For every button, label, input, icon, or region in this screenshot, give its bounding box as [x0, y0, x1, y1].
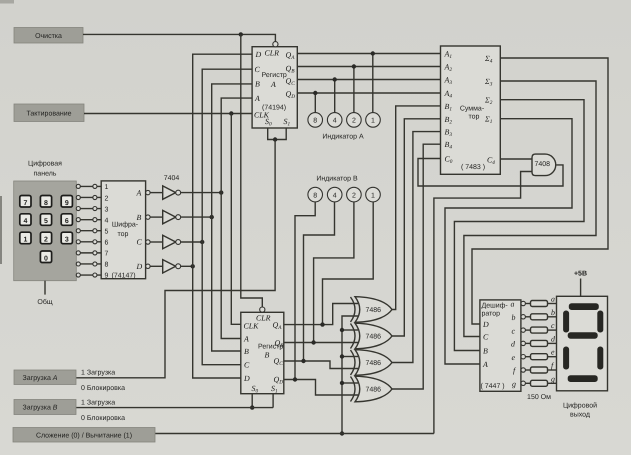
- indicator B lamp 1: [366, 187, 381, 202]
- indicator A: [308, 113, 380, 128]
- wire Σ1 to decoder A: [445, 119, 572, 364]
- svg-text:Загрузка В: Загрузка В: [23, 405, 58, 412]
- svg-text:9: 9: [105, 273, 109, 280]
- svg-text:a: a: [511, 300, 515, 309]
- wire XOR4 out to adder B4: [392, 144, 441, 389]
- wire XOR2 out to adder B2: [392, 119, 441, 336]
- wire subtract to 7408 input2: [434, 172, 532, 434]
- svg-text:7486: 7486: [366, 334, 382, 341]
- key 1: [20, 232, 31, 244]
- encoder output D bubble: [146, 264, 150, 268]
- wire decoder c to resistor: [525, 329, 530, 331]
- svg-text:4: 4: [333, 192, 337, 199]
- svg-text:7: 7: [105, 251, 109, 258]
- terminal encoder side row 5: [93, 229, 97, 233]
- wire Σ2 to decoder B: [454, 100, 584, 351]
- display segment f upper-left: [563, 311, 569, 333]
- display segment a top: [569, 303, 599, 310]
- wire Очистка to CLR of register A with branch node: [83, 34, 275, 41]
- svg-text:7486: 7486: [366, 387, 382, 394]
- wire XOR3 out to adder B3: [392, 132, 441, 363]
- encoder output B bubble: [146, 215, 150, 219]
- terminal keypad side row 1: [76, 184, 80, 188]
- svg-text:Загрузка А: Загрузка А: [23, 375, 58, 382]
- wire inverter B output to B bus: [181, 216, 212, 218]
- wire decoder f to resistor: [525, 369, 530, 371]
- node CLK branch: [229, 111, 233, 115]
- wire resistor to display segment c: [548, 329, 557, 331]
- decoder output b bubble: [521, 315, 525, 319]
- svg-text:6: 6: [65, 218, 69, 225]
- svg-text:Цифровая: Цифровая: [28, 160, 62, 168]
- resistor 150 Ohm segment b: [531, 314, 548, 320]
- svg-text:В: В: [265, 351, 270, 360]
- svg-text:0: 0: [44, 255, 48, 262]
- terminal encoder side row 7: [93, 251, 97, 255]
- wire regB S1: [272, 394, 274, 408]
- terminal encoder side row 3: [93, 207, 97, 211]
- svg-text:A: A: [243, 335, 249, 344]
- terminal encoder side row 1: [93, 184, 97, 188]
- svg-text:e: e: [512, 353, 516, 362]
- wire encoder B to inverter B: [150, 216, 163, 218]
- indicator B wires: [295, 202, 315, 380]
- wire QA regB to XOR1: [284, 304, 358, 325]
- and-gate 7408: [532, 154, 556, 176]
- svg-text:8: 8: [313, 192, 317, 199]
- wire QB regB to XOR2: [284, 342, 359, 344]
- wire keypad key row 2 to encoder pin 2: [78, 196, 101, 198]
- svg-text:4: 4: [23, 218, 27, 225]
- svg-text:C: C: [137, 238, 143, 247]
- wire decoder g to resistor: [525, 382, 530, 384]
- wire C4 to 7408 input1: [500, 158, 532, 160]
- terminal keypad side row 7: [76, 251, 80, 255]
- wire QD regA to adder A4: [297, 92, 440, 94]
- svg-text:1: 1: [23, 237, 27, 244]
- svg-text:e: e: [551, 348, 555, 357]
- node CLR branch: [239, 32, 243, 36]
- wire QC regA to adder A3: [297, 79, 440, 81]
- wire keypad key row 3 to encoder pin 3: [78, 208, 101, 210]
- svg-text:3: 3: [65, 237, 69, 244]
- svg-text:Регистр: Регистр: [262, 72, 287, 79]
- scan edge streak: [0, 196, 2, 264]
- svg-text:выход: выход: [570, 412, 590, 419]
- xor-gate U4b 7486: [355, 323, 392, 349]
- svg-text:Сумма-: Сумма-: [460, 106, 485, 113]
- svg-text:8: 8: [105, 262, 109, 269]
- inverter U2b 7404 B: [163, 210, 176, 223]
- wire keypad key row 7 to encoder pin 7: [78, 252, 101, 254]
- svg-text:8: 8: [44, 200, 48, 207]
- wire C bus: [202, 69, 252, 365]
- svg-text:( 7447 ): ( 7447 ): [481, 382, 505, 390]
- resistor 150 Ohm segment e: [531, 354, 548, 360]
- key 6: [61, 214, 72, 226]
- wire keypad key row 1 to encoder pin 1: [78, 185, 101, 187]
- key 9: [61, 196, 72, 208]
- key 0: [40, 251, 51, 263]
- svg-text:1: 1: [371, 192, 375, 199]
- wire regB S0: [251, 394, 253, 408]
- decoder output e bubble: [521, 355, 525, 359]
- svg-text:B: B: [244, 347, 249, 356]
- resistor 150 Ohm segment c: [531, 327, 548, 333]
- svg-text:А: А: [270, 80, 276, 89]
- wire QC regB to XOR3: [284, 361, 358, 369]
- key 7: [20, 196, 31, 208]
- svg-text:B: B: [483, 347, 488, 356]
- svg-text:D: D: [243, 374, 250, 383]
- terminal encoder side row 6: [93, 240, 97, 244]
- svg-text:Сложение (0) / Вычитание (1): Сложение (0) / Вычитание (1): [36, 431, 132, 439]
- svg-text:c: c: [512, 326, 516, 335]
- svg-text:a: a: [551, 295, 555, 304]
- wire CLR bus down to register B: [241, 34, 262, 307]
- wire common stem: [44, 281, 46, 295]
- svg-text:150 Ом: 150 Ом: [527, 394, 551, 401]
- resistor 150 Ohm segment g: [531, 380, 548, 386]
- wire resistor to display segment g: [548, 382, 557, 384]
- terminal keypad side row 6: [76, 240, 80, 244]
- wire D bus: [193, 54, 252, 378]
- decoder output c bubble: [521, 328, 525, 332]
- wire encoder C to inverter C: [150, 241, 163, 243]
- encoder output bubbles + stubs: [146, 190, 150, 268]
- svg-text:( 7483 ): ( 7483 ): [461, 163, 485, 171]
- inverter U2c 7404 C: [163, 235, 176, 248]
- wire regA S0 S1 join: [268, 128, 287, 140]
- adder 7483: [441, 46, 501, 174]
- svg-text:C: C: [244, 361, 250, 370]
- svg-text:c: c: [551, 321, 555, 330]
- terminal encoder side row 4: [93, 218, 97, 222]
- wire resistor to display segment f: [548, 369, 557, 371]
- wire decoder d to resistor: [525, 342, 530, 344]
- svg-text:3: 3: [105, 206, 109, 213]
- node D bus junction: [191, 264, 195, 268]
- keypad panel label: [28, 160, 62, 178]
- xor-gate U4d 7486: [355, 376, 392, 402]
- node A bus junction: [219, 190, 223, 194]
- resistors and segment wires: [521, 295, 557, 387]
- wire resistor to display segment d: [548, 342, 557, 344]
- svg-text:2: 2: [44, 237, 48, 244]
- key 8: [40, 196, 51, 208]
- svg-text:A: A: [136, 188, 142, 197]
- svg-text:0 Блокировка: 0 Блокировка: [81, 415, 125, 422]
- resistor 150 Ohm segment d: [531, 340, 548, 346]
- inverters: [150, 186, 223, 273]
- inverter U2a 7404 A: [163, 186, 176, 199]
- decoder output f bubble: [521, 368, 525, 372]
- svg-text:d: d: [511, 340, 515, 349]
- xor-gate U4c 7486: [355, 350, 392, 376]
- terminal encoder side row 9: [93, 273, 97, 277]
- svg-text:Индикатор В: Индикатор В: [316, 176, 358, 183]
- wire decoder a to resistor: [525, 303, 530, 305]
- wire Σ4 to decoder D: [472, 58, 608, 324]
- svg-text:тор: тор: [469, 114, 480, 121]
- wire keypad key row 4 to encoder pin 4: [78, 219, 101, 221]
- wire QB regA to adder A2: [297, 66, 440, 68]
- svg-text:0 Блокировка: 0 Блокировка: [81, 385, 125, 392]
- svg-text:7: 7: [23, 200, 27, 207]
- 7-seg display: [557, 296, 608, 391]
- terminal encoder side row 2: [93, 195, 97, 199]
- svg-text:B: B: [255, 80, 260, 89]
- wire Σ3 to decoder C: [464, 81, 596, 337]
- svg-text:4: 4: [333, 118, 337, 125]
- wire Загрузка B: [76, 407, 273, 409]
- wires keypad to encoder rows 1-9 with terminals: [76, 184, 101, 277]
- svg-text:Тактирование: Тактирование: [26, 111, 71, 118]
- wire Сложение main: [155, 433, 434, 435]
- wire XOR1 out to adder B1: [392, 106, 441, 310]
- svg-text:D: D: [255, 50, 262, 59]
- svg-text:Цифровой: Цифровой: [563, 402, 597, 410]
- indicator A risers: [372, 54, 374, 114]
- wire keypad key row 5 to encoder pin 5: [78, 230, 101, 232]
- wire QD regB to XOR4: [284, 380, 358, 396]
- subtract riser to XOR gates: [342, 316, 358, 434]
- display segment g middle: [568, 332, 598, 338]
- svg-text:+5В: +5В: [574, 271, 587, 278]
- svg-text:4: 4: [105, 217, 109, 224]
- wire decoder b to resistor: [525, 316, 530, 318]
- svg-text:Шифра-: Шифра-: [112, 221, 139, 229]
- svg-text:панель: панель: [34, 171, 57, 178]
- svg-text:5: 5: [44, 218, 48, 225]
- wire B bus: [212, 84, 252, 351]
- resistor 150 Ohm segment f: [531, 367, 548, 373]
- wire keypad key row 6 to encoder pin 6: [78, 241, 101, 243]
- wire 7408 out end-around to C0: [418, 159, 563, 187]
- svg-text:b: b: [512, 313, 516, 322]
- wire CLK bus down to register B: [231, 114, 241, 325]
- decoder 7447: [480, 300, 521, 392]
- key 5: [40, 214, 51, 226]
- inverter U2d 7404 D: [163, 260, 176, 273]
- key 2: [40, 232, 51, 244]
- svg-text:Дешиф-: Дешиф-: [482, 302, 509, 310]
- svg-text:b: b: [551, 308, 555, 317]
- decoder output a bubble: [521, 301, 525, 305]
- wire resistor to display segment b: [548, 316, 557, 318]
- indicator B lamp 4: [327, 187, 342, 202]
- svg-text:Индикатор А: Индикатор А: [322, 134, 364, 141]
- resistor 150 Ohm segment a: [531, 301, 548, 307]
- svg-text:ратор: ратор: [482, 311, 501, 318]
- svg-text:1: 1: [371, 118, 375, 125]
- svg-text:A: A: [254, 94, 260, 103]
- wire A bus: [221, 98, 252, 338]
- display segment c lower-right: [597, 347, 603, 370]
- svg-text:6: 6: [105, 240, 109, 247]
- xor-gate U4a 7486: [355, 297, 392, 323]
- encoder 74147: [101, 181, 145, 280]
- indicator A lamp 2: [347, 113, 362, 128]
- svg-text:1: 1: [105, 184, 109, 191]
- indicator A lamp 1: [366, 113, 381, 128]
- wire Тактирование to CLK of register A: [84, 113, 252, 115]
- decoder output g bubble: [521, 381, 525, 385]
- svg-text:CLR: CLR: [265, 49, 280, 58]
- svg-text:Общ: Общ: [37, 298, 52, 306]
- svg-text:C: C: [255, 65, 261, 74]
- label Загрузка В: [14, 400, 76, 415]
- indicator A lamp 8: [308, 113, 323, 128]
- svg-text:2: 2: [352, 192, 356, 199]
- svg-text:1 Загрузка: 1 Загрузка: [81, 370, 115, 377]
- svg-text:7486: 7486: [366, 360, 382, 367]
- wire resistor to display segment e: [548, 356, 557, 358]
- svg-text:A: A: [482, 360, 488, 369]
- indicator A lamp 4: [327, 113, 342, 128]
- terminal keypad side row 5: [76, 229, 80, 233]
- node B bus junction: [210, 215, 214, 219]
- svg-text:7408: 7408: [535, 161, 551, 168]
- terminal keypad side row 9: [76, 273, 80, 277]
- display segment e lower-left: [563, 347, 569, 370]
- register A 74194: [252, 42, 297, 128]
- svg-text:5: 5: [105, 229, 109, 236]
- svg-text:(74147): (74147): [112, 272, 136, 280]
- node C bus junction: [200, 240, 204, 244]
- svg-text:7486: 7486: [366, 307, 382, 314]
- svg-text:Очистка: Очистка: [35, 33, 62, 40]
- terminal encoder side row 8: [93, 262, 97, 266]
- terminal keypad side row 2: [76, 195, 80, 199]
- svg-text:1 Загрузка: 1 Загрузка: [81, 400, 115, 407]
- decoder output d bubble: [521, 341, 525, 345]
- wire keypad key row 8 to encoder pin 8: [78, 263, 101, 265]
- wire decoder e to resistor: [525, 356, 530, 358]
- svg-text:2: 2: [105, 195, 109, 202]
- svg-text:g: g: [551, 374, 555, 383]
- svg-text:CLK: CLK: [244, 322, 260, 331]
- svg-text:2: 2: [352, 118, 356, 125]
- wire encoder A to inverter A: [150, 192, 163, 194]
- wire resistor to display segment a: [548, 303, 557, 305]
- svg-text:9: 9: [65, 200, 69, 207]
- wire inverter C output to C bus: [181, 241, 203, 243]
- terminal keypad side row 3: [76, 207, 80, 211]
- svg-text:D: D: [136, 262, 143, 271]
- wire inverter D output to D bus: [181, 265, 193, 267]
- wire inverter A output to A bus: [181, 192, 222, 194]
- terminal keypad side row 8: [76, 262, 80, 266]
- svg-text:8: 8: [313, 118, 317, 125]
- label Очистка: [14, 28, 83, 44]
- key 4: [20, 214, 31, 226]
- indicator B lamp 8: [308, 187, 323, 202]
- svg-text:B: B: [137, 213, 142, 222]
- terminal keypad side row 4: [76, 218, 80, 222]
- encoder output C bubble: [146, 240, 150, 244]
- label Сложение/Вычитание: [13, 428, 155, 443]
- display segment b upper-right: [597, 311, 603, 333]
- svg-text:g: g: [512, 380, 516, 389]
- XOR gates: [351, 297, 393, 402]
- svg-text:C: C: [483, 333, 489, 342]
- svg-text:d: d: [551, 334, 555, 343]
- keypad panel: [14, 181, 77, 281]
- wire QA regA to adder A1: [297, 53, 440, 55]
- label Загрузка А: [14, 370, 76, 385]
- indicator B lamp 2: [347, 187, 362, 202]
- wire Загрузка A route: [76, 140, 275, 378]
- key 3: [61, 232, 72, 244]
- svg-text:D: D: [482, 320, 489, 329]
- encoder output A bubble: [146, 190, 150, 194]
- label Тактирование: [14, 104, 84, 122]
- register B 74194: [241, 307, 284, 395]
- svg-text:тор: тор: [118, 231, 129, 238]
- wire keypad key row 9 to encoder pin 9: [78, 274, 101, 276]
- display segment d bottom: [568, 375, 598, 382]
- wire encoder D to inverter D: [150, 265, 163, 267]
- svg-text:7404: 7404: [164, 175, 180, 182]
